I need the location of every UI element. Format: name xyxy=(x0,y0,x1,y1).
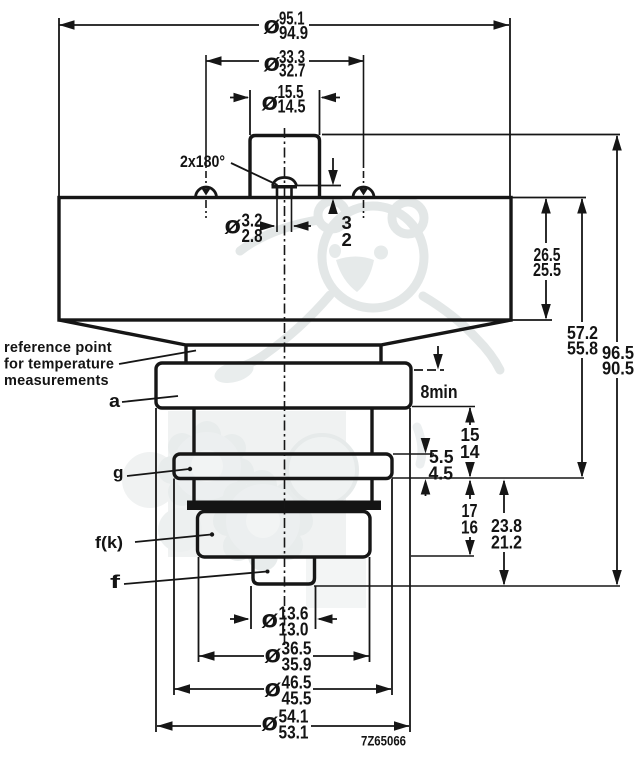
svg-text:32.7: 32.7 xyxy=(279,60,306,81)
svg-text:f(k): f(k) xyxy=(95,534,123,552)
dimension dia 15.5/14.5 xyxy=(230,81,340,117)
right screw dome xyxy=(353,187,374,198)
label g with leader xyxy=(113,463,192,482)
extension line ring g bottom right long xyxy=(392,477,584,479)
svg-text:90.5: 90.5 xyxy=(602,359,634,379)
neck between g and cathode band xyxy=(194,479,372,502)
extension line cap top right xyxy=(322,134,620,136)
watermark bear xyxy=(212,201,500,464)
svg-text:4.5: 4.5 xyxy=(429,464,454,484)
svg-text:53.1: 53.1 xyxy=(279,722,309,743)
dimension 17/16 xyxy=(461,480,478,556)
extension lines bottom dims xyxy=(156,408,410,732)
extension line ring a bottom right xyxy=(412,406,475,408)
extension lines body top dims xyxy=(59,18,510,198)
left screw centerline xyxy=(205,55,207,218)
svg-text:ø: ø xyxy=(262,606,279,634)
label reference point xyxy=(4,340,114,389)
dimension 96.5/90.5 xyxy=(602,135,634,586)
ring a xyxy=(156,363,411,408)
svg-text:measurements: measurements xyxy=(4,373,109,389)
svg-text:ø: ø xyxy=(262,709,279,737)
top cap outline xyxy=(250,136,320,198)
svg-text:ø: ø xyxy=(265,641,282,669)
extension line f bottom right long xyxy=(314,585,620,587)
svg-text:2x180°: 2x180° xyxy=(180,152,225,171)
ring g xyxy=(174,454,392,479)
label f with leader xyxy=(110,570,270,593)
svg-text:g: g xyxy=(113,463,124,482)
svg-text:7Z65066: 7Z65066 xyxy=(361,734,406,749)
extension line body top right xyxy=(511,197,586,199)
neck between a and g xyxy=(194,408,372,454)
dimension 23.8/21.2 xyxy=(491,480,522,586)
right screw centerline xyxy=(363,55,365,218)
anode body outline xyxy=(59,198,511,321)
label 2x180 deg with leader xyxy=(180,152,278,185)
svg-text:a: a xyxy=(109,391,121,411)
svg-text:2.8: 2.8 xyxy=(242,225,263,246)
dimension dia 33.3/32.7 xyxy=(206,46,364,81)
extension line fk bottom right xyxy=(411,555,474,557)
svg-text:for temperature: for temperature xyxy=(4,357,114,373)
svg-text:25.5: 25.5 xyxy=(533,260,561,280)
svg-text:ø: ø xyxy=(225,212,242,240)
svg-text:8min: 8min xyxy=(421,382,458,402)
cathode black band xyxy=(187,501,381,511)
svg-text:94.9: 94.9 xyxy=(279,22,308,43)
svg-text:55.8: 55.8 xyxy=(567,339,598,359)
dimension 5.5/4.5 xyxy=(421,438,454,496)
label f(k) with leader xyxy=(95,532,214,552)
dimension dia 3.2/2.8 xyxy=(225,199,312,246)
dimension dia 46.5/45.5 xyxy=(175,672,392,709)
svg-text:16: 16 xyxy=(461,518,478,538)
cone transition xyxy=(59,320,511,363)
svg-text:14: 14 xyxy=(460,442,480,462)
center rivet xyxy=(272,178,298,198)
svg-text:f: f xyxy=(110,572,122,592)
dimension 8 min xyxy=(414,346,458,402)
svg-text:ø: ø xyxy=(265,675,282,703)
svg-text:13.0: 13.0 xyxy=(279,619,309,640)
svg-text:reference point: reference point xyxy=(4,340,112,356)
extension line body bottom right xyxy=(511,319,552,321)
f stem xyxy=(253,557,315,584)
f(k) body xyxy=(198,512,371,558)
dimension 57.2/55.8 xyxy=(567,198,598,478)
svg-text:ø: ø xyxy=(262,88,279,116)
dimension dia 95.1/94.9 xyxy=(59,8,509,44)
leader reference point xyxy=(119,351,196,365)
svg-text:14.5: 14.5 xyxy=(278,96,306,117)
extension line ring g top right xyxy=(393,453,434,455)
dimension 15/14 xyxy=(460,407,480,478)
dimension 3/2 rivet height xyxy=(296,158,352,250)
watermark gear patch xyxy=(122,411,366,608)
dimension dia 13.6/13.0 xyxy=(230,603,337,640)
dimension dia 54.1/53.1 xyxy=(157,706,410,743)
dimension dia 36.5/35.9 xyxy=(199,638,369,675)
svg-text:2: 2 xyxy=(342,229,352,250)
label a with leader xyxy=(109,391,178,411)
left screw dome xyxy=(196,187,217,198)
svg-text:21.2: 21.2 xyxy=(491,533,522,553)
dimension 26.5/25.5 xyxy=(533,198,561,320)
main centerline xyxy=(284,128,286,645)
